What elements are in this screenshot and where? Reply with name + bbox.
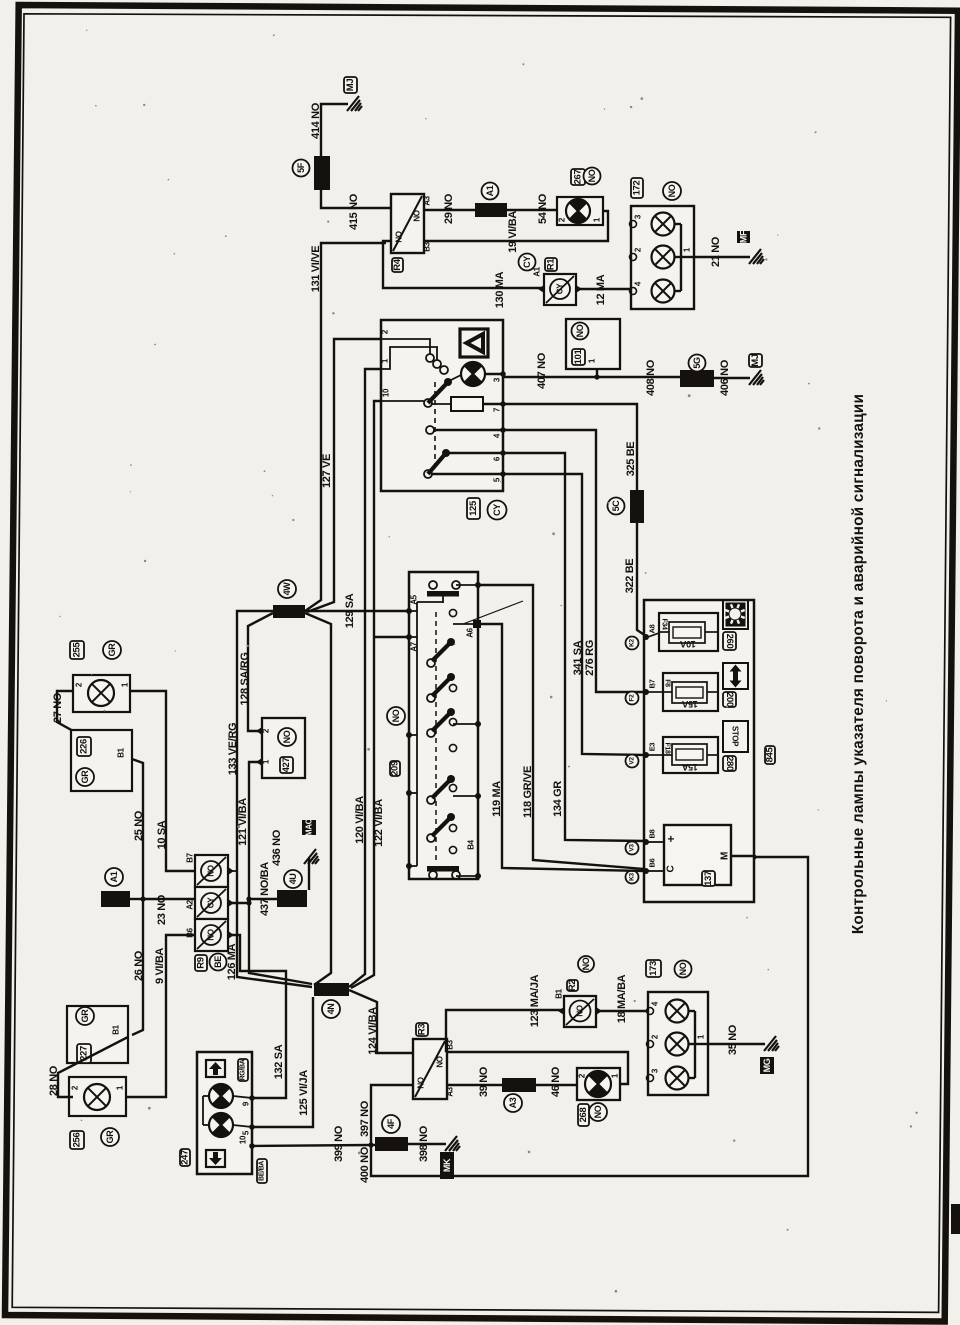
svg-text:172: 172 <box>632 181 643 196</box>
svg-text:415 NO: 415 NO <box>348 193 360 230</box>
svg-text:4N: 4N <box>326 1004 336 1015</box>
svg-text:28 NO: 28 NO <box>48 1065 60 1096</box>
svg-text:RG/BA: RG/BA <box>240 1059 247 1080</box>
svg-text:122 VI/BA: 122 VI/BA <box>373 799 385 847</box>
svg-text:134 GR: 134 GR <box>552 781 564 817</box>
svg-text:4U: 4U <box>288 874 298 885</box>
svg-text:35 NO: 35 NO <box>727 1024 739 1055</box>
svg-text:B3: B3 <box>423 241 432 251</box>
svg-text:GR: GR <box>107 643 117 657</box>
svg-text:322 BE: 322 BE <box>624 559 636 594</box>
svg-text:325 BE: 325 BE <box>625 442 637 477</box>
svg-text:120 VI/BA: 120 VI/BA <box>354 796 366 844</box>
svg-text:B1: B1 <box>117 747 126 757</box>
svg-text:4W: 4W <box>282 582 292 596</box>
svg-text:B6: B6 <box>648 858 657 867</box>
svg-text:341 SA: 341 SA <box>572 640 584 675</box>
svg-text:414 NO: 414 NO <box>310 102 322 139</box>
svg-text:101: 101 <box>573 349 584 365</box>
svg-text:R3: R3 <box>417 1024 428 1036</box>
svg-text:MAC: MAC <box>305 818 314 836</box>
svg-text:B4: B4 <box>467 839 476 849</box>
svg-text:E3: E3 <box>648 743 657 752</box>
svg-text:A1: A1 <box>109 871 119 882</box>
svg-text:256: 256 <box>72 1133 83 1148</box>
svg-text:39 NO: 39 NO <box>478 1066 490 1097</box>
svg-text:NO: NO <box>593 1105 603 1118</box>
svg-text:R2: R2 <box>567 980 578 992</box>
svg-text:F2: F2 <box>629 694 636 702</box>
svg-text:427: 427 <box>281 758 292 773</box>
svg-text:A8: A8 <box>648 624 657 633</box>
svg-text:10: 10 <box>239 1135 248 1144</box>
svg-text:NO: NO <box>395 231 404 242</box>
svg-text:280: 280 <box>724 756 735 771</box>
svg-text:MJ: MJ <box>345 79 356 92</box>
svg-text:4F: 4F <box>386 1118 396 1129</box>
svg-text:10 SA: 10 SA <box>156 820 168 849</box>
svg-text:276 RG: 276 RG <box>584 640 596 676</box>
svg-text:M: M <box>720 852 731 860</box>
svg-text:CY: CY <box>556 283 565 294</box>
svg-text:A3: A3 <box>446 1086 455 1096</box>
svg-text:B7: B7 <box>186 852 195 862</box>
svg-text:NO: NO <box>417 1077 426 1088</box>
svg-text:21 NO: 21 NO <box>710 236 722 267</box>
svg-text:NO: NO <box>391 709 401 722</box>
svg-text:MK: MK <box>442 1158 452 1172</box>
svg-text:9 VI/BA: 9 VI/BA <box>154 948 166 984</box>
svg-text:5G: 5G <box>692 357 702 369</box>
svg-text:125 VI/JA: 125 VI/JA <box>298 1070 310 1116</box>
svg-text:12 MA: 12 MA <box>595 274 607 305</box>
svg-text:NO: NO <box>576 1005 585 1016</box>
svg-text:A3: A3 <box>508 1097 518 1108</box>
svg-text:R1: R1 <box>546 258 557 271</box>
svg-text:MG: MG <box>762 1058 772 1072</box>
svg-text:226: 226 <box>79 739 90 754</box>
svg-text:23 NO: 23 NO <box>156 894 168 925</box>
svg-text:133 VE/RG: 133 VE/RG <box>227 723 239 776</box>
svg-text:128 SA/RG: 128 SA/RG <box>239 652 251 705</box>
svg-text:NO: NO <box>587 169 597 182</box>
svg-text:125: 125 <box>468 500 479 516</box>
svg-text:NO: NO <box>207 929 216 940</box>
svg-text:400 NO: 400 NO <box>359 1146 371 1183</box>
svg-text:255: 255 <box>72 642 83 658</box>
svg-text:MJ: MJ <box>750 354 761 367</box>
svg-text:R4: R4 <box>392 258 403 271</box>
svg-text:A1: A1 <box>533 266 542 276</box>
svg-text:260: 260 <box>724 634 735 649</box>
svg-text:399 NO: 399 NO <box>333 1125 345 1162</box>
svg-text:200: 200 <box>724 692 735 707</box>
svg-text:129 SA: 129 SA <box>344 593 356 628</box>
svg-text:F8: F8 <box>664 679 671 687</box>
svg-text:10A: 10A <box>679 639 695 649</box>
svg-text:K2: K2 <box>629 638 636 646</box>
svg-text:B1: B1 <box>112 1024 121 1034</box>
svg-text:NO: NO <box>581 957 591 970</box>
svg-text:26 NO: 26 NO <box>133 950 145 981</box>
svg-text:NO: NO <box>575 324 585 337</box>
svg-text:436 NO: 436 NO <box>271 829 283 866</box>
svg-text:NO: NO <box>667 184 677 197</box>
svg-text:247: 247 <box>180 1150 191 1165</box>
svg-text:131 VI/VE: 131 VI/VE <box>310 246 322 292</box>
svg-text:A5: A5 <box>410 594 419 604</box>
svg-text:5C: 5C <box>611 500 621 512</box>
svg-text:A3: A3 <box>423 195 432 205</box>
svg-text:CY: CY <box>492 504 502 516</box>
svg-text:B6: B6 <box>186 927 195 937</box>
svg-text:NO: NO <box>678 962 688 975</box>
svg-text:F18: F18 <box>664 742 671 753</box>
svg-text:BE/BA: BE/BA <box>259 1161 266 1181</box>
svg-text:A2: A2 <box>186 899 195 909</box>
svg-text:18 MA/BA: 18 MA/BA <box>616 974 628 1023</box>
svg-text:118 GR/VE: 118 GR/VE <box>522 766 534 818</box>
svg-text:29 NO: 29 NO <box>443 193 455 224</box>
svg-text:173: 173 <box>648 961 659 976</box>
svg-text:STOP: STOP <box>731 726 740 747</box>
svg-text:NO: NO <box>436 1056 445 1067</box>
svg-text:GR: GR <box>105 1130 115 1144</box>
svg-text:BE: BE <box>213 956 223 968</box>
svg-text:A1: A1 <box>485 185 495 196</box>
svg-text:27 NO: 27 NO <box>52 692 64 723</box>
svg-text:V2: V2 <box>629 757 636 765</box>
svg-text:15A: 15A <box>681 762 697 772</box>
svg-text:C: C <box>666 865 677 872</box>
svg-text:267: 267 <box>573 170 584 185</box>
svg-text:397 NO: 397 NO <box>359 1100 371 1137</box>
svg-text:10: 10 <box>382 388 391 397</box>
svg-text:15A: 15A <box>681 699 697 709</box>
svg-text:54 NO: 54 NO <box>537 193 549 224</box>
svg-text:B8: B8 <box>648 829 657 838</box>
svg-text:R9: R9 <box>196 957 207 969</box>
svg-text:845: 845 <box>765 747 776 763</box>
svg-text:126 MA: 126 MA <box>226 943 238 980</box>
svg-text:25 NO: 25 NO <box>133 810 145 841</box>
svg-text:MF: MF <box>739 230 749 243</box>
svg-text:5F: 5F <box>296 162 306 173</box>
svg-text:NO: NO <box>413 210 422 221</box>
svg-text:NO: NO <box>207 865 216 876</box>
svg-text:132 SA: 132 SA <box>273 1044 285 1079</box>
svg-text:46 NO: 46 NO <box>550 1066 562 1097</box>
svg-text:NO: NO <box>282 730 292 743</box>
svg-text:A7: A7 <box>410 641 419 651</box>
svg-text:408 NO: 408 NO <box>645 359 657 396</box>
svg-text:19 VI/BA: 19 VI/BA <box>507 211 519 253</box>
svg-text:V3: V3 <box>629 844 636 852</box>
svg-text:407 NO: 407 NO <box>536 352 548 389</box>
svg-text:B1: B1 <box>555 988 564 998</box>
svg-text:406 NO: 406 NO <box>719 359 731 396</box>
svg-text:130 MA: 130 MA <box>494 271 506 308</box>
svg-text:123 MA/JA: 123 MA/JA <box>529 974 541 1027</box>
svg-text:K3: K3 <box>629 872 636 880</box>
svg-text:398 NO: 398 NO <box>418 1125 430 1162</box>
svg-text:121 VI/BA: 121 VI/BA <box>237 798 249 846</box>
svg-text:F34: F34 <box>661 618 668 629</box>
svg-text:124 VI/BA: 124 VI/BA <box>367 1007 379 1055</box>
svg-text:A6: A6 <box>466 627 475 637</box>
svg-text:119 MA: 119 MA <box>491 781 503 817</box>
svg-text:137: 137 <box>703 871 714 886</box>
svg-text:CY: CY <box>207 897 216 908</box>
svg-text:127 VE: 127 VE <box>321 454 333 488</box>
svg-text:GR: GR <box>80 1009 90 1023</box>
svg-text:Контрольные лампы указателя по: Контрольные лампы указателя поворота и а… <box>850 394 867 934</box>
svg-text:268: 268 <box>578 1108 589 1123</box>
svg-text:GR: GR <box>80 770 90 784</box>
svg-text:CY: CY <box>522 256 532 268</box>
svg-text:209: 209 <box>390 761 401 776</box>
svg-text:+: + <box>664 835 678 842</box>
svg-text:437 NO/BA: 437 NO/BA <box>259 862 271 916</box>
